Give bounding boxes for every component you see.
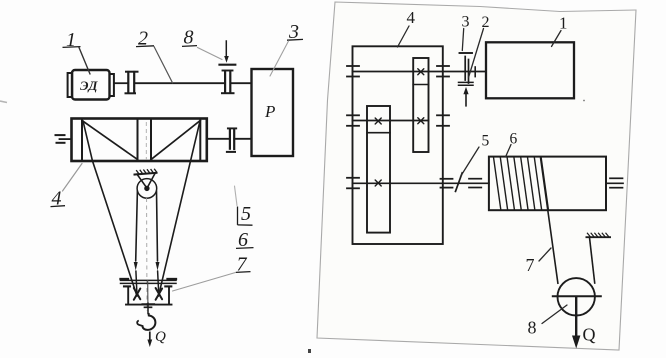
svg-text:5: 5 — [482, 133, 490, 150]
svg-text:8: 8 — [184, 27, 194, 49]
svg-text:1: 1 — [559, 14, 568, 33]
svg-text:Q: Q — [583, 325, 596, 345]
svg-text:8: 8 — [528, 318, 537, 338]
svg-text:4: 4 — [407, 8, 416, 27]
svg-text:5: 5 — [241, 203, 251, 225]
svg-text:7: 7 — [526, 255, 535, 275]
svg-text:Q: Q — [155, 329, 166, 345]
svg-text:ЭД: ЭД — [80, 78, 98, 93]
svg-text:3: 3 — [462, 14, 470, 31]
svg-text:Р: Р — [264, 102, 275, 121]
svg-text:2: 2 — [482, 14, 490, 31]
